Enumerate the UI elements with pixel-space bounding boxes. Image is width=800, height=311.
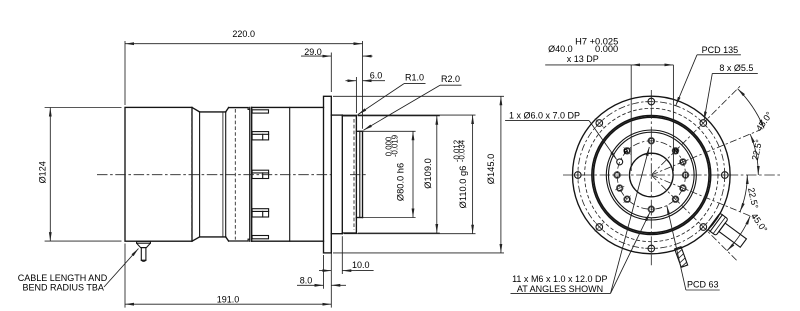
- side view centerline: [97, 174, 331, 176]
- dim O110.0 g6: [333, 114, 476, 116]
- bolt hole O5.5 at 90 deg: [648, 98, 655, 105]
- tapped hole M6 at 202.5 deg: [617, 186, 622, 191]
- svg-text:8 x Ø5.5: 8 x Ø5.5: [719, 63, 753, 73]
- bolt hole O5.5 at 315 deg: [700, 224, 707, 231]
- clip tab 5: [252, 236, 268, 239]
- svg-text:29.0: 29.0: [304, 47, 322, 57]
- tapped hole M6 at 180 deg: [615, 173, 620, 178]
- diagonal centerline -45 deg: [651, 175, 737, 261]
- bolt hole O5.5 at 270 deg: [648, 245, 655, 252]
- bolt hole O5.5 at 135 deg: [596, 120, 603, 127]
- PCD63 centerline circle: [617, 141, 685, 209]
- bolt hole O5.5 at 45 deg: [700, 120, 707, 127]
- groove before face plate: [247, 108, 249, 110]
- svg-text:R2.0: R2.0: [441, 74, 460, 84]
- cable gland on end view: [708, 213, 750, 251]
- svg-text:Ø109.0: Ø109.0: [423, 158, 433, 189]
- svg-text:Ø40.0: Ø40.0: [548, 44, 573, 54]
- clip tab 1: [252, 110, 268, 113]
- cone taper: [192, 107, 200, 112]
- clip tab 3: [252, 170, 269, 178]
- dim O124: [45, 107, 122, 109]
- angle dim 22.5 lower: [740, 175, 747, 212]
- end view horizontal centerline: [563, 174, 780, 176]
- angle dim 45.0 lower: [727, 216, 750, 251]
- svg-text:B: B: [624, 149, 629, 156]
- side view: motor body outline: [125, 107, 192, 241]
- hidden circle O124: [585, 108, 718, 241]
- diagonal centerline 45 deg: [651, 86, 740, 175]
- connector face plate: [249, 107, 251, 241]
- hidden line in collar: [234, 109, 236, 240]
- svg-text:R1.0: R1.0: [405, 73, 424, 83]
- svg-text:1 x Ø6.0 x 7.0 DP: 1 x Ø6.0 x 7.0 DP: [509, 111, 580, 121]
- O110 g6 section: [331, 114, 342, 116]
- tapped hole M6 at 0 deg: [683, 173, 688, 178]
- bolt hole O5.5 at 225 deg: [596, 224, 603, 231]
- dim 191.0: [124, 244, 126, 308]
- diagonal centerline -22.5 deg: [651, 175, 755, 218]
- bolt hole O5.5 at 0 deg: [722, 172, 729, 179]
- circle O80 chamfer: [606, 130, 696, 220]
- O109 section: [342, 115, 356, 117]
- svg-text:6.0: 6.0: [370, 71, 383, 81]
- tapped hole M6 at 225 deg: [625, 197, 630, 202]
- chamfer to collar: [226, 108, 229, 112]
- dim O109.0: [358, 115, 440, 117]
- tapped hole M6 at 135 deg: [625, 148, 630, 153]
- angle dim 45.0 upper: [738, 89, 764, 129]
- circle O109: [594, 117, 710, 233]
- dowel hole O6.0 at 157.5 deg: [617, 159, 623, 165]
- dim 220.0: [124, 41, 126, 105]
- O80 h6 spigot: [356, 130, 362, 132]
- clip tab 2: [252, 132, 269, 140]
- svg-text:-0.034: -0.034: [458, 139, 467, 162]
- end view vertical centerline: [650, 90, 652, 267]
- small cable stub: [675, 247, 688, 268]
- mid cylinder section: [200, 111, 226, 113]
- svg-text:AT ANGLES SHOWN: AT ANGLES SHOWN: [517, 284, 603, 294]
- svg-text:CABLE LENGTH AND: CABLE LENGTH AND: [18, 273, 108, 283]
- angle dim 22.5 upper: [750, 134, 758, 175]
- tapped hole M6 at 45 deg: [673, 148, 678, 153]
- tapped hole M6 at 270 deg: [649, 207, 654, 212]
- hidden line in O109: [353, 119, 355, 230]
- tapped hole M6 at 22.5 deg: [680, 159, 685, 164]
- clip tab 4: [252, 209, 269, 217]
- flange: [324, 96, 332, 253]
- bore O40: [630, 153, 674, 197]
- svg-text:11 x M6 x 1.0 x 12.0 DP: 11 x M6 x 1.0 x 12.0 DP: [512, 274, 607, 284]
- svg-text:0.000: 0.000: [595, 44, 618, 54]
- cable gland on body bottom: [137, 241, 151, 247]
- end view outer circle O145: [573, 96, 731, 254]
- bolt hole O5.5 at 180 deg: [575, 172, 582, 179]
- svg-text:PCD 135: PCD 135: [702, 45, 739, 55]
- hidden edge at body end: [191, 112, 193, 237]
- dim 10.0: [341, 236, 343, 274]
- circle O80: [609, 132, 695, 218]
- svg-text:Ø80.0 h6: Ø80.0 h6: [395, 163, 405, 201]
- svg-text:Ø145.0: Ø145.0: [486, 154, 496, 185]
- connector block: [252, 106, 324, 108]
- svg-text:PCD 63: PCD 63: [687, 280, 719, 290]
- svg-text:Ø124: Ø124: [38, 161, 48, 183]
- dim 6.0: [355, 77, 357, 113]
- svg-text:220.0: 220.0: [232, 29, 255, 39]
- svg-text:10.0: 10.0: [352, 260, 370, 270]
- svg-text:8.0: 8.0: [300, 275, 313, 285]
- diagonal centerline 22.5 deg: [651, 130, 761, 176]
- svg-text:BEND RADIUS TBA: BEND RADIUS TBA: [23, 283, 104, 293]
- collar section top/bottom: [229, 107, 249, 109]
- PCD 135 bolt circle centerline: [578, 102, 725, 249]
- svg-text:0.000: 0.000: [384, 136, 393, 156]
- dim O145.0: [333, 95, 504, 97]
- dim 8.0: [323, 255, 325, 289]
- tapped hole M6 at 337.5 deg: [680, 186, 685, 191]
- svg-text:Ø110.0 g6: Ø110.0 g6: [458, 166, 468, 209]
- dim O80.0 h6: [358, 130, 416, 132]
- svg-text:191.0: 191.0: [217, 295, 240, 305]
- tapped hole M6 at 90 deg: [649, 138, 654, 143]
- svg-text:x 13 DP: x 13 DP: [567, 54, 599, 64]
- circle O110: [592, 116, 711, 235]
- tapped hole M6 at 315 deg: [673, 197, 678, 202]
- dim 29.0: [330, 53, 332, 93]
